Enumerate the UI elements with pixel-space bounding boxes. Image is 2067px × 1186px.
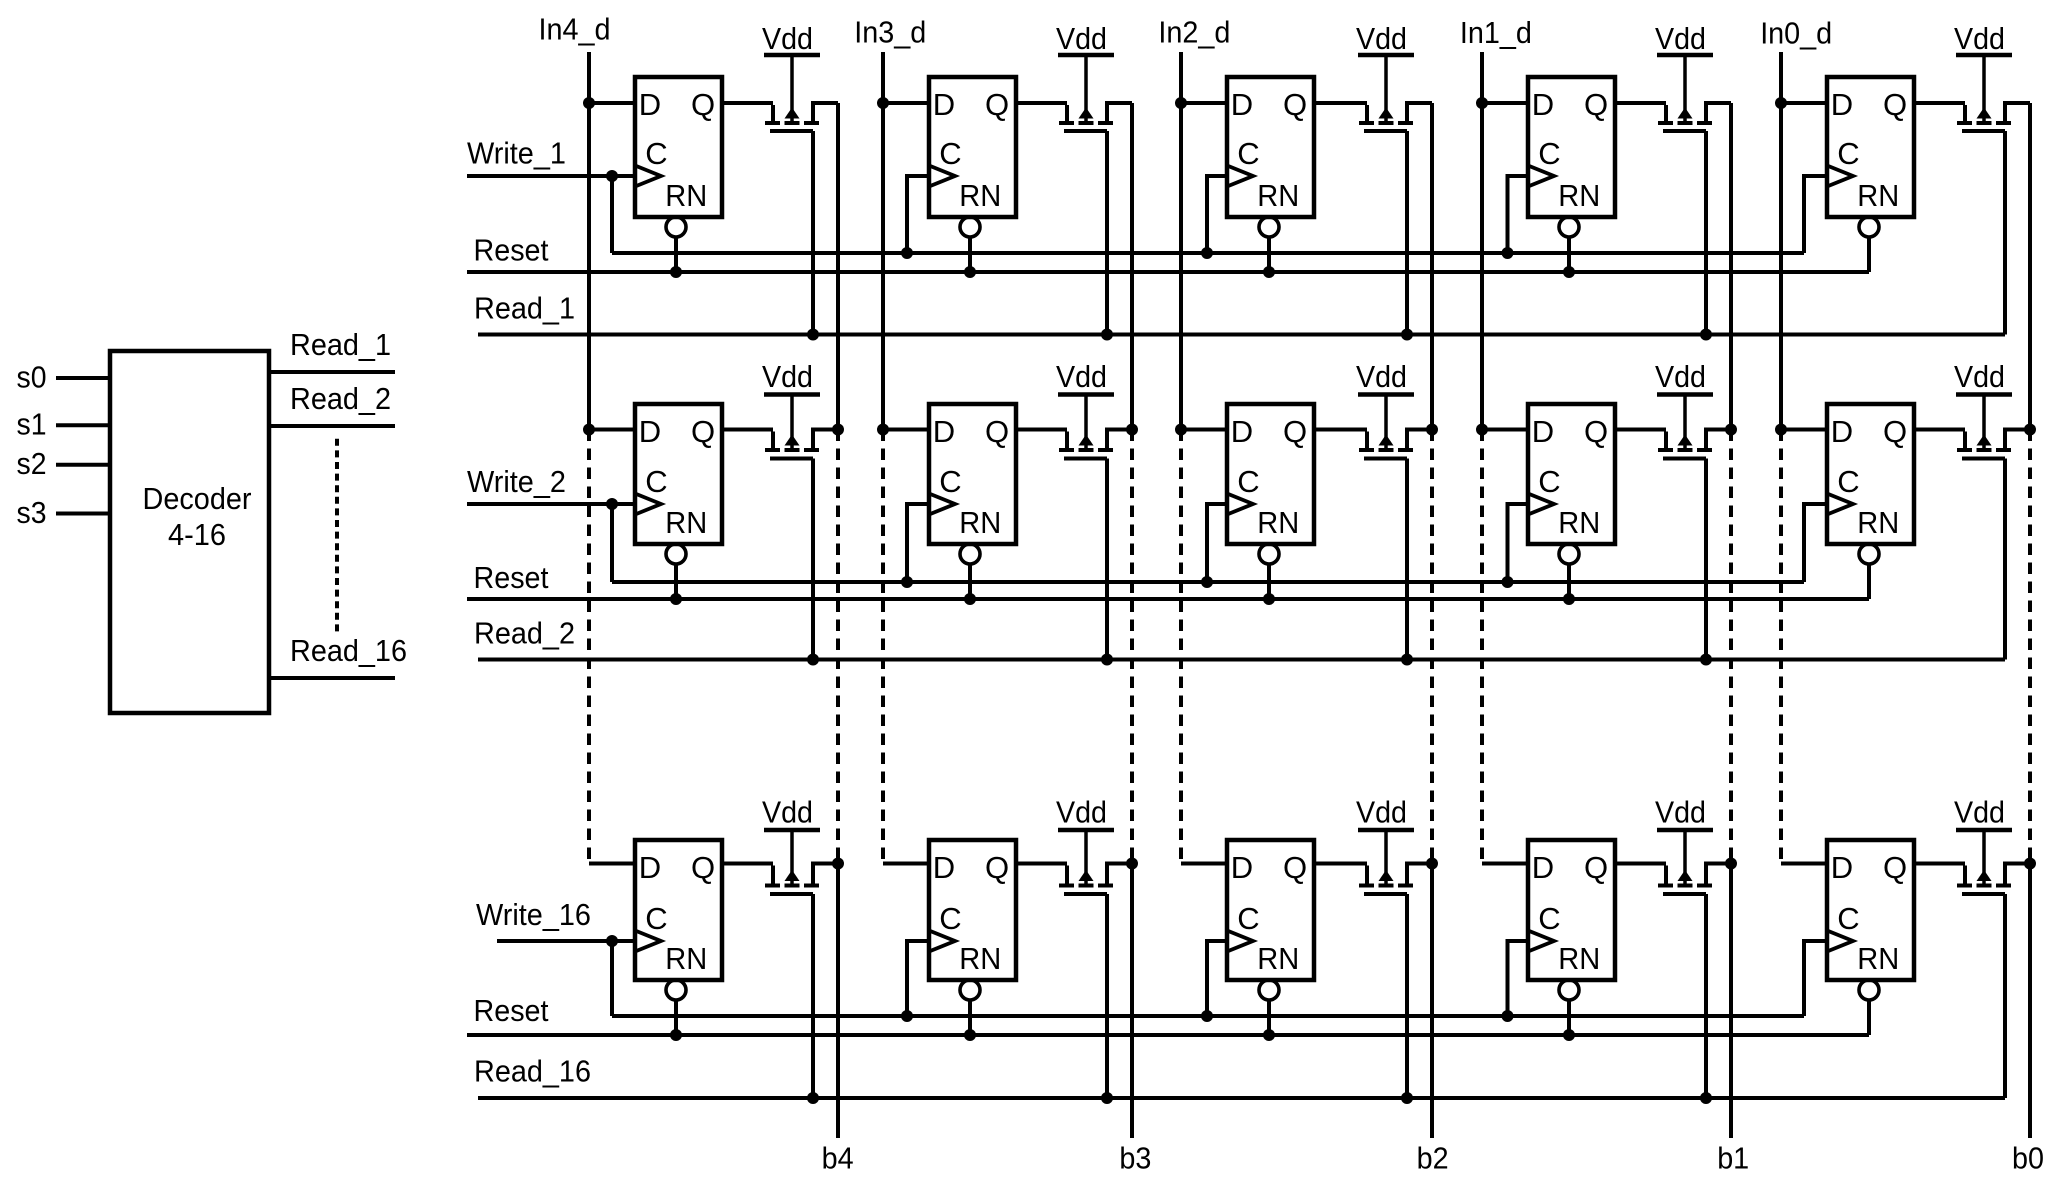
svg-text:Q: Q: [1283, 87, 1307, 122]
U15 clock edge triangle: [1827, 166, 1853, 187]
wire U34 C input riser: [1508, 941, 1529, 1016]
svg-text:Q: Q: [1283, 850, 1307, 885]
svg-text:Reset: Reset: [474, 233, 549, 268]
pass transistor M13: [1359, 55, 1432, 131]
Vdd supply (row 16, col b3): [1056, 795, 1114, 831]
junction M33 gate / Read_16: [1401, 1092, 1413, 1104]
junction M32 gate / Read_16: [1101, 1092, 1113, 1104]
pass transistor M24: [1658, 395, 1731, 459]
net b4 vertical dashed (rows 2-16): [836, 430, 840, 864]
wire s1 input: [56, 423, 110, 427]
junction M24 drain / b1: [1725, 424, 1737, 436]
U33 clock edge triangle: [1227, 931, 1253, 952]
wire s2 input: [56, 463, 110, 467]
wire M33 gate to Read_16: [1405, 894, 1409, 1098]
junction M12 gate / Read_1: [1101, 329, 1113, 341]
svg-text:C: C: [1237, 901, 1259, 936]
svg-text:In4_d: In4_d: [539, 11, 611, 46]
svg-text:C: C: [1538, 464, 1560, 499]
junction M13 gate / Read_1: [1401, 329, 1413, 341]
svg-text:Write_16: Write_16: [476, 897, 591, 932]
wire U22 D input: [883, 428, 929, 432]
wire Write_16 input: [497, 939, 635, 943]
svg-text:b3: b3: [1119, 1141, 1151, 1176]
svg-text:Q: Q: [1883, 414, 1907, 449]
wire U31 RN to Reset: [674, 1002, 678, 1036]
svg-text:RN: RN: [959, 178, 1001, 213]
pass transistor M33: [1359, 830, 1432, 894]
wire U33 Q output: [1314, 862, 1367, 866]
pass transistor M34: [1658, 830, 1731, 894]
wire U34 Q output: [1615, 862, 1666, 866]
svg-text:Vdd: Vdd: [1356, 21, 1407, 56]
D flip-flop U24 box: [1528, 404, 1615, 544]
net b2 vertical (row 16 to bottom): [1430, 864, 1434, 1139]
wire Write_1 rail drop (col 1): [610, 176, 614, 253]
wire s3 input: [56, 512, 110, 516]
wire U15 Q output: [1914, 101, 1965, 105]
net In3_d vertical dashed (rows 2-16): [881, 430, 885, 864]
pass transistor M32: [1059, 830, 1132, 894]
net In2_d vertical dashed (rows 2-16): [1179, 430, 1183, 864]
junction M31 gate / Read_16: [807, 1092, 819, 1104]
net In1_d vertical (rows 1-2): [1480, 52, 1484, 430]
junction M23 drain / b2: [1426, 424, 1438, 436]
U24 clock edge triangle: [1528, 494, 1554, 515]
U22 pin labels D Q C RN: [933, 414, 1009, 540]
U31 RN inversion bubble: [666, 980, 686, 1000]
junction U32 RN / Reset: [964, 1029, 976, 1041]
net In3_d vertical (rows 1-2): [881, 52, 885, 430]
junction Write_16 / rail drop: [606, 935, 618, 947]
wire M31 gate to Read_16: [811, 894, 815, 1098]
Vdd supply (row 1, col b3): [1056, 21, 1114, 56]
junction U22 RN / Reset: [964, 593, 976, 605]
U13 RN inversion bubble: [1259, 217, 1279, 237]
pass transistor M23: [1359, 395, 1432, 459]
svg-text:RN: RN: [665, 941, 707, 976]
U13 pin labels D Q C RN: [1231, 87, 1307, 213]
svg-text:RN: RN: [1558, 941, 1600, 976]
svg-text:C: C: [1237, 464, 1259, 499]
pass transistor M22: [1059, 395, 1132, 459]
U34 pin labels D Q C RN: [1532, 850, 1608, 976]
net b3 vertical (rows 1-2): [1130, 103, 1134, 430]
svg-text:b4: b4: [822, 1141, 854, 1176]
wire Write_16 rail drop (col 1): [610, 941, 614, 1016]
U35 RN inversion bubble: [1859, 980, 1879, 1000]
D flip-flop U35 box: [1827, 840, 1914, 980]
svg-text:Q: Q: [985, 850, 1009, 885]
svg-text:Vdd: Vdd: [1954, 21, 2005, 56]
junction Write_1 rail / U14 riser: [1502, 247, 1514, 259]
net In2_d vertical (rows 1-2): [1179, 52, 1183, 430]
wire U14 Q output: [1615, 101, 1666, 105]
D flip-flop U31 box: [635, 840, 722, 980]
junction M22 drain / b3: [1126, 424, 1138, 436]
svg-text:D: D: [1831, 414, 1853, 449]
svg-text:C: C: [1837, 136, 1859, 171]
U32 pin labels D Q C RN: [933, 850, 1009, 976]
junction Write_2 rail / U23 riser: [1201, 576, 1213, 588]
D flip-flop U21 box: [635, 404, 722, 544]
svg-text:Vdd: Vdd: [1056, 795, 1107, 830]
svg-text:C: C: [645, 136, 667, 171]
svg-text:C: C: [645, 464, 667, 499]
wire Write_1 distribution rail: [612, 251, 1804, 255]
wire Write_2 input: [467, 502, 635, 506]
wire M21 gate to Read_2: [811, 459, 815, 660]
U32 clock edge triangle: [929, 931, 955, 952]
svg-text:D: D: [933, 87, 955, 122]
pass transistor M35: [1957, 830, 2030, 894]
U21 clock edge triangle: [635, 494, 661, 515]
svg-text:Vdd: Vdd: [1954, 359, 2005, 394]
wire Reset line (row 1): [467, 270, 1869, 274]
svg-text:Vdd: Vdd: [1655, 795, 1706, 830]
junction In4_d / U11 D: [583, 97, 595, 109]
svg-text:Q: Q: [1883, 850, 1907, 885]
wire M34 gate to Read_16: [1704, 894, 1708, 1098]
svg-text:D: D: [1231, 414, 1253, 449]
svg-text:RN: RN: [1257, 505, 1299, 540]
wire U13 D input: [1181, 101, 1227, 105]
wire U24 Q output: [1615, 428, 1666, 432]
wire U12 D input: [883, 101, 929, 105]
U22 clock edge triangle: [929, 494, 955, 515]
D flip-flop U32 box: [929, 840, 1016, 980]
junction Write_16 rail / U32 riser: [901, 1010, 913, 1022]
svg-text:C: C: [645, 901, 667, 936]
wire M23 gate to Read_2: [1405, 459, 1409, 660]
Vdd supply (row 2, col b2): [1356, 359, 1414, 395]
svg-text:Write_1: Write_1: [467, 136, 566, 171]
wire U23 Q output: [1314, 428, 1367, 432]
wire decoder output Read_2: [269, 424, 395, 428]
wire decoder output Read_1: [269, 370, 395, 374]
U31 clock edge triangle: [635, 931, 661, 952]
svg-text:Read_2: Read_2: [290, 381, 391, 416]
U33 RN inversion bubble: [1259, 980, 1279, 1000]
svg-text:C: C: [1837, 464, 1859, 499]
U34 RN inversion bubble: [1559, 980, 1579, 1000]
wire U33 D input: [1181, 862, 1227, 866]
net b1 vertical dashed (rows 2-16): [1729, 430, 1733, 864]
svg-text:s2: s2: [17, 446, 47, 481]
svg-text:Read_1: Read_1: [290, 327, 391, 362]
U14 RN inversion bubble: [1559, 217, 1579, 237]
svg-text:Vdd: Vdd: [1356, 359, 1407, 394]
wire U35 Q output: [1914, 862, 1965, 866]
U21 pin labels D Q C RN: [639, 414, 715, 540]
junction Write_2 / rail drop: [606, 498, 618, 510]
svg-text:C: C: [1538, 901, 1560, 936]
svg-text:Reset: Reset: [474, 560, 549, 595]
junction M35 drain / b0: [2024, 858, 2036, 870]
U25 RN inversion bubble: [1859, 544, 1879, 564]
wire U23 RN to Reset: [1267, 566, 1271, 600]
U15 RN inversion bubble: [1859, 217, 1879, 237]
wire M15 gate to Read_1: [2003, 131, 2007, 335]
U33 pin labels D Q C RN: [1231, 850, 1307, 976]
junction In3_d / U12 D: [877, 97, 889, 109]
wire decoder output Read_16: [269, 676, 395, 680]
wire U24 D input: [1482, 428, 1528, 432]
junction M31 drain / b4: [832, 858, 844, 870]
wire U23 C input riser: [1207, 504, 1227, 582]
svg-text:In3_d: In3_d: [854, 15, 926, 50]
net b1 vertical (row 16 to bottom): [1729, 864, 1733, 1139]
net b1 vertical (rows 1-2): [1729, 103, 1733, 430]
U12 RN inversion bubble: [960, 217, 980, 237]
svg-text:RN: RN: [1857, 505, 1899, 540]
svg-text:D: D: [1532, 414, 1554, 449]
junction M14 gate / Read_1: [1700, 329, 1712, 341]
D flip-flop U22 box: [929, 404, 1016, 544]
wire U25 RN to Reset: [1867, 566, 1871, 600]
wire U35 C input riser: [1804, 941, 1827, 1016]
wire U14 RN to Reset: [1567, 239, 1571, 273]
wire Read_2 line: [478, 658, 2005, 662]
junction In0_d / U15 D: [1775, 97, 1787, 109]
wire Reset line (row 2): [467, 597, 1869, 601]
U32 RN inversion bubble: [960, 980, 980, 1000]
wire M22 gate to Read_2: [1105, 459, 1109, 660]
U11 clock edge triangle: [635, 166, 661, 187]
wire U22 RN to Reset: [968, 566, 972, 600]
U24 pin labels D Q C RN: [1532, 414, 1608, 540]
svg-text:D: D: [639, 87, 661, 122]
wire U21 Q output: [722, 428, 773, 432]
svg-text:In1_d: In1_d: [1460, 15, 1532, 50]
svg-text:Read_16: Read_16: [474, 1054, 591, 1089]
net b0 vertical (row 16 to bottom): [2028, 864, 2032, 1139]
junction In2_d / U23 D: [1175, 424, 1187, 436]
wire U35 RN to Reset: [1867, 1002, 1871, 1036]
junction In1_d / U14 D: [1476, 97, 1488, 109]
wire M32 gate to Read_16: [1105, 894, 1109, 1098]
svg-text:4-16: 4-16: [168, 517, 226, 552]
wire U22 Q output: [1016, 428, 1067, 432]
net b3 vertical dashed (rows 2-16): [1130, 430, 1134, 864]
svg-text:Vdd: Vdd: [1655, 21, 1706, 56]
pass transistor M25: [1957, 395, 2030, 459]
junction Write_2 rail / U22 riser: [901, 576, 913, 588]
svg-text:D: D: [639, 850, 661, 885]
pass transistor M14: [1658, 55, 1731, 131]
junction In3_d / U22 D: [877, 424, 889, 436]
D flip-flop U23 box: [1227, 404, 1314, 544]
svg-text:Q: Q: [985, 87, 1009, 122]
svg-text:RN: RN: [959, 941, 1001, 976]
Vdd supply (row 2, col b3): [1056, 359, 1114, 395]
wire U15 D input: [1781, 101, 1827, 105]
svg-text:In0_d: In0_d: [1760, 15, 1832, 50]
svg-text:s1: s1: [17, 407, 47, 442]
wire U21 D input: [589, 428, 635, 432]
Vdd supply (row 16, col b2): [1356, 795, 1414, 831]
net In4_d vertical dashed (rows 2-16): [587, 430, 591, 864]
U35 pin labels D Q C RN: [1831, 850, 1907, 976]
U14 clock edge triangle: [1528, 166, 1554, 187]
svg-text:D: D: [1532, 87, 1554, 122]
junction Write_16 rail / U34 riser: [1502, 1010, 1514, 1022]
wire M35 gate to Read_16: [2003, 894, 2007, 1098]
svg-text:s0: s0: [17, 359, 47, 394]
junction U24 RN / Reset: [1563, 593, 1575, 605]
svg-text:Q: Q: [1883, 87, 1907, 122]
wire M12 gate to Read_1: [1105, 131, 1109, 335]
U21 RN inversion bubble: [666, 544, 686, 564]
junction Write_1 rail / U13 riser: [1201, 247, 1213, 259]
junction M32 drain / b3: [1126, 858, 1138, 870]
junction M34 gate / Read_16: [1700, 1092, 1712, 1104]
svg-text:C: C: [939, 464, 961, 499]
junction Write_1 rail / U12 riser: [901, 247, 913, 259]
wire Read_16 line: [478, 1096, 2005, 1100]
net b4 vertical (rows 1-2): [836, 103, 840, 430]
svg-text:D: D: [933, 850, 955, 885]
svg-text:Decoder: Decoder: [143, 481, 252, 516]
svg-text:C: C: [939, 136, 961, 171]
junction U13 RN / Reset: [1263, 266, 1275, 278]
U35 clock edge triangle: [1827, 931, 1853, 952]
wire U13 C input riser: [1207, 176, 1227, 253]
svg-text:Q: Q: [691, 850, 715, 885]
Vdd supply (row 2, col b4): [762, 359, 820, 395]
net b2 vertical dashed (rows 2-16): [1430, 430, 1434, 864]
junction U23 RN / Reset: [1263, 593, 1275, 605]
wire U15 RN to Reset: [1867, 239, 1871, 273]
svg-text:Q: Q: [691, 87, 715, 122]
U13 clock edge triangle: [1227, 166, 1253, 187]
D flip-flop U15 box: [1827, 77, 1914, 217]
junction M23 gate / Read_2: [1401, 654, 1413, 666]
svg-text:Vdd: Vdd: [1356, 795, 1407, 830]
junction Write_16 rail / U33 riser: [1201, 1010, 1213, 1022]
wire U31 D input: [589, 862, 635, 866]
pass transistor M31: [765, 830, 838, 894]
wire U14 C input riser: [1508, 176, 1529, 253]
svg-text:RN: RN: [1558, 505, 1600, 540]
svg-text:Q: Q: [985, 414, 1009, 449]
junction U31 RN / Reset: [670, 1029, 682, 1041]
Vdd supply (row 16, col b1): [1655, 795, 1713, 831]
wire U33 RN to Reset: [1267, 1002, 1271, 1036]
svg-text:Vdd: Vdd: [762, 21, 813, 56]
junction M22 gate / Read_2: [1101, 654, 1113, 666]
wire U11 D input: [589, 101, 635, 105]
decoder 4-16 U0 box: [110, 351, 269, 713]
Vdd supply (row 16, col b4): [762, 795, 820, 831]
svg-text:Q: Q: [1584, 850, 1608, 885]
svg-text:C: C: [1237, 136, 1259, 171]
net b2 vertical (rows 1-2): [1430, 103, 1434, 430]
wire Write_1 input: [467, 174, 635, 178]
wire U31 Q output: [722, 862, 773, 866]
svg-text:C: C: [939, 901, 961, 936]
svg-text:RN: RN: [1857, 178, 1899, 213]
Vdd supply (row 1, col b1): [1655, 21, 1713, 56]
svg-text:Q: Q: [1283, 414, 1307, 449]
svg-text:b0: b0: [2012, 1141, 2044, 1176]
decoder outputs ellipsis (dashed): [335, 439, 339, 635]
junction U14 RN / Reset: [1563, 266, 1575, 278]
svg-text:Reset: Reset: [474, 993, 549, 1028]
svg-text:D: D: [1231, 87, 1253, 122]
Vdd supply (row 16, col b0): [1954, 795, 2012, 831]
svg-text:Vdd: Vdd: [1056, 359, 1107, 394]
junction U12 RN / Reset: [964, 266, 976, 278]
wire U25 C input riser: [1804, 504, 1827, 582]
D flip-flop U34 box: [1528, 840, 1615, 980]
wire U12 C input riser: [907, 176, 929, 253]
svg-text:Vdd: Vdd: [1954, 795, 2005, 830]
junction M21 gate / Read_2: [807, 654, 819, 666]
junction In4_d / U21 D: [583, 424, 595, 436]
svg-text:Read_16: Read_16: [290, 633, 407, 668]
svg-text:Write_2: Write_2: [467, 464, 566, 499]
D flip-flop U12 box: [929, 77, 1016, 217]
wire U24 C input riser: [1508, 504, 1529, 582]
Vdd supply (row 1, col b4): [762, 21, 820, 56]
svg-text:D: D: [1532, 850, 1554, 885]
svg-text:D: D: [639, 414, 661, 449]
svg-text:Vdd: Vdd: [762, 359, 813, 394]
wire M25 gate to Read_2: [2003, 459, 2007, 660]
wire M14 gate to Read_1: [1704, 131, 1708, 335]
U11 pin labels D Q C RN: [639, 87, 715, 213]
wire U25 D input: [1781, 428, 1827, 432]
net b0 vertical (rows 1-2): [2028, 103, 2032, 430]
svg-text:RN: RN: [665, 505, 707, 540]
pass transistor M12: [1059, 55, 1132, 131]
svg-text:RN: RN: [1857, 941, 1899, 976]
junction M21 drain / b4: [832, 424, 844, 436]
svg-text:Vdd: Vdd: [762, 795, 813, 830]
net b3 vertical (row 16 to bottom): [1130, 864, 1134, 1139]
Vdd supply (row 2, col b0): [1954, 359, 2012, 395]
wire M13 gate to Read_1: [1405, 131, 1409, 335]
wire U23 D input: [1181, 428, 1227, 432]
U12 clock edge triangle: [929, 166, 955, 187]
net b0 vertical dashed (rows 2-16): [2028, 430, 2032, 864]
wire U35 D input: [1781, 862, 1827, 866]
net In0_d vertical dashed (rows 2-16): [1779, 430, 1783, 864]
junction M11 gate / Read_1: [807, 329, 819, 341]
D flip-flop U33 box: [1227, 840, 1314, 980]
svg-text:s3: s3: [17, 495, 47, 530]
wire U15 C input riser: [1804, 176, 1827, 253]
U31 pin labels D Q C RN: [639, 850, 715, 976]
U23 clock edge triangle: [1227, 494, 1253, 515]
wire U33 C input riser: [1207, 941, 1227, 1016]
net b4 vertical (row 16 to bottom): [836, 864, 840, 1139]
svg-text:In2_d: In2_d: [1158, 15, 1230, 50]
wire U22 C input riser: [907, 504, 929, 582]
U23 pin labels D Q C RN: [1231, 414, 1307, 540]
wire M11 gate to Read_1: [811, 131, 815, 335]
junction Write_1 / rail drop: [606, 170, 618, 182]
wire U11 RN to Reset: [674, 239, 678, 273]
svg-text:RN: RN: [959, 505, 1001, 540]
U14 pin labels D Q C RN: [1532, 87, 1608, 213]
decoder U0 label: [143, 481, 252, 552]
junction In2_d / U13 D: [1175, 97, 1187, 109]
U22 RN inversion bubble: [960, 544, 980, 564]
D flip-flop U11 box: [635, 77, 722, 217]
U23 RN inversion bubble: [1259, 544, 1279, 564]
